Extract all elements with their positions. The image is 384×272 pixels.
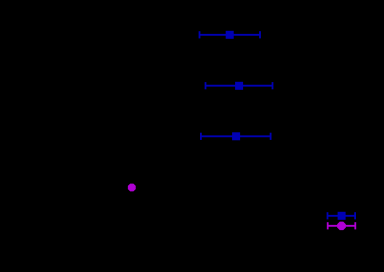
errorbar series1 point2 bar	[206, 82, 273, 89]
errorbar series1 point2 square marker	[235, 82, 243, 90]
errorbar series1 point1 bar	[200, 31, 261, 38]
errorbar series1 point3 square marker	[232, 132, 240, 140]
legend blue square marker	[338, 212, 346, 220]
legend blue errorbar sample	[328, 212, 356, 219]
errorbar series1 point1 square marker	[226, 31, 234, 39]
series2 circle marker point	[128, 184, 136, 192]
errorbar series1 point3 bar	[201, 133, 271, 140]
legend magenta errorbar sample	[328, 222, 356, 229]
legend magenta circle marker	[337, 222, 346, 231]
